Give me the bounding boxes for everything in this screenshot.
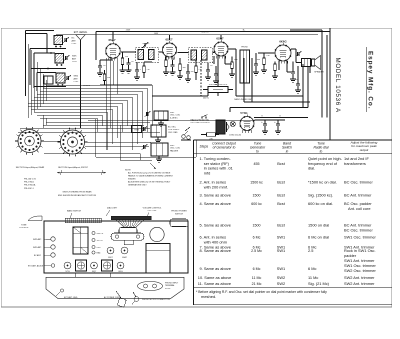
switch S1 wafer section B rear	[15, 127, 45, 169]
label band switch	[67, 210, 82, 218]
svg-text:SW2 Ant. trimmer: SW2 Ant. trimmer	[344, 275, 375, 280]
dial scale hatched bar	[65, 218, 101, 222]
wire grid caps and misc labels	[113, 30, 298, 137]
resistor R AVC 2	[195, 60, 202, 80]
svg-text:COIL: COIL	[74, 81, 80, 83]
coil L6 SW2 OSC with trimmer	[141, 143, 181, 162]
label pilot lamp list	[24, 178, 37, 190]
IF transformer T2 456kc	[178, 32, 215, 63]
coil L1 BC ANT with trimmer	[54, 36, 77, 48]
resistor network diode load box	[240, 47, 250, 84]
svg-text:465 KC: 465 KC	[203, 98, 210, 100]
svg-text:COIL: COIL	[72, 61, 78, 63]
svg-text:5Y3G: 5Y3G	[65, 271, 70, 273]
svg-text:ANT: ANT	[72, 57, 77, 60]
coil L2 SW1 ANT with trimmer	[55, 54, 78, 66]
capacitor C filter 2	[274, 120, 281, 134]
svg-text:6-18 MC: 6-18 MC	[170, 117, 178, 119]
tube socket 6SK7 top	[107, 247, 114, 259]
antenna EXT AERIAL	[74, 31, 91, 128]
svg-text:ANT: ANT	[74, 77, 79, 80]
plug AC power cord	[104, 291, 126, 307]
socket shielded box 1	[76, 260, 87, 271]
svg-text:SPEAKER: SPEAKER	[314, 71, 324, 74]
svg-text:2.5 Mc: 2.5 Mc	[251, 249, 262, 253]
speaker SP1	[312, 56, 325, 74]
svg-text:6K6G: 6K6G	[279, 40, 286, 44]
capacitor C diode filter	[185, 64, 194, 82]
svg-text:Bcst: Bcst	[277, 161, 285, 166]
svg-text:.05: .05	[131, 61, 134, 63]
svg-text:11 Mc: 11 Mc	[308, 275, 318, 280]
svg-text:.006: .006	[257, 59, 261, 61]
speaker side view on chassis	[111, 216, 151, 244]
svg-text:BC: BC	[72, 38, 75, 40]
svg-text:RADIO-PHONO SW.: RADIO-PHONO SW.	[191, 119, 210, 122]
svg-text:Sig. (1500 kc).: Sig. (1500 kc).	[308, 193, 333, 198]
svg-text:.1: .1	[140, 69, 142, 71]
wire heater rail	[88, 61, 255, 121]
svg-text:.5 M: .5 M	[266, 55, 270, 57]
svg-text:transformers: transformers	[344, 161, 366, 166]
trimmer BC ANT on chassis	[34, 253, 55, 257]
svg-text:8: 8	[261, 116, 262, 118]
svg-text:2ND I.F.: 2ND I.F.	[97, 233, 104, 235]
tuning gang condenser top view	[73, 227, 88, 254]
svg-text:300: 300	[183, 67, 186, 69]
resistor R osc grid	[103, 70, 111, 85]
schematic right boundary rule	[329, 28, 331, 140]
svg-text:PHONO INPUT: PHONO INPUT	[165, 282, 179, 284]
wire ground rail lower	[18, 128, 196, 160]
svg-text:NOTE:: NOTE:	[125, 170, 132, 172]
svg-text:Espey Mfg. Co.: Espey Mfg. Co.	[367, 51, 374, 109]
svg-text:SECTION &quot;B&quot; REAR: SECTION &quot;B&quot; REAR	[16, 166, 45, 169]
svg-text:VOLUME CONTROL: VOLUME CONTROL	[143, 207, 163, 209]
svg-text:AC POWER CORD: AC POWER CORD	[104, 296, 121, 299]
svg-text:GENERATORS ONLY: GENERATORS ONLY	[128, 184, 147, 187]
svg-text:5. Same as above: 5. Same as above	[200, 223, 231, 228]
svg-text:100: 100	[191, 71, 194, 73]
svg-text:PHONO POWER: PHONO POWER	[171, 211, 187, 213]
filter can circle	[150, 227, 164, 241]
wire oscillator section links	[85, 119, 156, 169]
svg-text:EXT. AERIAL: EXT. AERIAL	[74, 31, 88, 34]
svg-text:output: output	[360, 148, 369, 152]
socket labels bottom row	[65, 271, 123, 273]
wire plate supply verticals	[290, 30, 327, 118]
svg-text:270: 270	[277, 59, 280, 61]
resistor R cathode V1 and bypass	[120, 52, 132, 73]
capacitor C screen bypass V2	[134, 62, 141, 80]
svg-text:Bcst: Bcst	[277, 201, 285, 206]
svg-text:OSC. COIL: OSC. COIL	[170, 148, 181, 150]
tube socket V5 bottom row 1	[64, 262, 71, 269]
chassis front apron	[46, 273, 184, 299]
svg-text:mfd: mfd	[204, 170, 211, 175]
svg-text:250V: 250V	[126, 30, 131, 32]
trimmer SW2 ANT on chassis	[33, 237, 55, 241]
svg-text:600 kc on dial.: 600 kc on dial.	[308, 201, 333, 206]
svg-text:*1500 kc on dial.: *1500 kc on dial.	[308, 180, 337, 185]
svg-text:5Y3G: 5Y3G	[240, 111, 247, 115]
label switch viewed note	[58, 190, 97, 197]
alignment table text	[196, 141, 378, 300]
label MODEL 10536 A vertical	[334, 58, 341, 113]
svg-text:END SHOWN IN BROADCAST POSITIO: END SHOWN IN BROADCAST POSITION	[58, 194, 97, 197]
wire band switch bus mesh	[28, 44, 152, 150]
resistor R plate V2	[177, 58, 186, 79]
svg-text:BC Ant. trimmer: BC Ant. trimmer	[344, 193, 372, 198]
potentiometer volume control	[203, 84, 233, 96]
capacitor C tone on output	[295, 51, 302, 93]
svg-text:6 Mc: 6 Mc	[253, 267, 261, 271]
svg-text:6SQ7: 6SQ7	[92, 271, 96, 273]
tube socket 6SA7 top	[121, 247, 128, 259]
svg-text:SW1 ANT.: SW1 ANT.	[33, 246, 42, 249]
svg-text:SW2 Ant. trimmer: SW2 Ant. trimmer	[344, 281, 375, 286]
svg-text:SW2: SW2	[277, 275, 285, 280]
capacitor C grid V1	[97, 60, 106, 76]
svg-text:RADIO-PHONO SW.: RADIO-PHONO SW.	[234, 98, 252, 101]
svg-text:TERMINAL: TERMINAL	[165, 284, 175, 287]
svg-text:OSC. PAD: OSC. PAD	[168, 131, 178, 134]
resistor R V4 cathode	[272, 62, 278, 80]
wire antenna feed	[26, 31, 67, 97]
svg-text:Steps: Steps	[200, 145, 209, 149]
svg-text:SHIELD: SHIELD	[83, 85, 91, 87]
label NOTE block	[125, 170, 174, 187]
coil L5 BC OSC with padder	[141, 125, 179, 143]
grommet ext ant gnd	[56, 289, 78, 299]
svg-text:STRIP: STRIP	[165, 288, 171, 290]
tube V2 6SK7 IF amp	[162, 38, 176, 60]
capacitor C antenna series box	[44, 76, 53, 84]
svg-text:ON - OFF: ON - OFF	[148, 210, 158, 212]
svg-text:Ant. coil core: Ant. coil core	[348, 206, 371, 211]
wire V2 V3 pin drops	[166, 56, 232, 87]
svg-text:BC OSC.: BC OSC.	[168, 127, 177, 129]
svg-text:ALL POINTS (X) &amp; (Y) IN LI: ALL POINTS (X) &amp; (Y) IN LIMITED OUTS…	[128, 172, 171, 175]
svg-text:PRI-4 BC-1: PRI-4 BC-1	[24, 188, 34, 190]
knob tone control	[19, 216, 42, 229]
tube socket bottom row 2	[91, 262, 98, 269]
svg-text:with 200 mmf.: with 200 mmf.	[204, 184, 228, 189]
svg-text:25M: 25M	[107, 77, 111, 79]
svg-text:2 M: 2 M	[199, 69, 202, 71]
dimension line switch sections	[57, 170, 106, 175]
plug phono motor connection	[132, 292, 170, 305]
svg-text:OSC. COIL: OSC. COIL	[170, 115, 181, 117]
svg-text:SW2 ANT.: SW2 ANT.	[33, 238, 42, 241]
svg-text:of Generator to: of Generator to	[213, 146, 236, 150]
svg-text:1500: 1500	[253, 224, 261, 228]
svg-text:TONE: TONE	[21, 224, 27, 226]
svg-text:PAD.: PAD.	[97, 252, 102, 255]
svg-text:DIAL LIGHT: DIAL LIGHT	[107, 207, 118, 210]
capacitor C output tone	[290, 62, 296, 83]
lamp pilot light	[230, 121, 235, 126]
svg-text:SW1: SW1	[277, 266, 285, 271]
svg-text:PRI-1 AT 1.5V: PRI-1 AT 1.5V	[24, 178, 37, 181]
svg-text:11. Same as above: 11. Same as above	[198, 281, 231, 286]
svg-text:2.5: 2.5	[308, 248, 313, 253]
svg-text:6 Mc on dial: 6 Mc on dial	[308, 235, 329, 240]
IF transformer T1 456kc	[121, 42, 162, 62]
svg-text:EXT. ANT. ADJUST: EXT. ANT. ADJUST	[28, 264, 45, 267]
svg-text:PADDER: PADDER	[170, 149, 179, 152]
svg-text:Bcst: Bcst	[277, 193, 285, 198]
tube V5 5Y3G rectifier	[240, 111, 254, 133]
svg-text:21 Mc: 21 Mc	[252, 282, 262, 286]
svg-text:1ST I.F.: 1ST I.F.	[97, 240, 104, 242]
resistor R AVC filter	[143, 62, 150, 78]
svg-text:6K6G: 6K6G	[118, 271, 123, 273]
svg-text:10. Same as above: 10. Same as above	[198, 275, 232, 280]
svg-text:4. Same as above: 4. Same as above	[200, 201, 231, 206]
capacitor C AVC	[213, 66, 219, 84]
svg-text:8: 8	[279, 116, 280, 118]
tube socket bottom row 3	[117, 262, 124, 269]
svg-text:455: 455	[254, 162, 260, 166]
tube V1 6SA7 converter	[106, 38, 121, 61]
svg-text:6 Mc: 6 Mc	[253, 236, 261, 240]
coil L4 SW1 OSC with trimmer	[144, 111, 181, 126]
svg-text:COIL: COIL	[72, 43, 78, 45]
terminal strip phono input	[138, 281, 179, 290]
label volume control on-off	[143, 207, 163, 218]
svg-text:.05: .05	[103, 65, 106, 67]
svg-text:SECTION &quot;A&quot; FRONT: SECTION &quot;A&quot; FRONT	[58, 166, 89, 169]
svg-text:6SA7: 6SA7	[122, 256, 126, 259]
trimmer SW1 ANT on chassis	[33, 245, 55, 249]
svg-text:6 Mc: 6 Mc	[308, 266, 316, 271]
resistor R grid leak	[261, 53, 267, 73]
label dial light	[106, 207, 118, 216]
table frame rules	[194, 140, 393, 305]
label radio-phono sw upper	[234, 98, 252, 101]
wire shield partition dashed	[200, 60, 202, 96]
svg-text:BC Osc. trimmer: BC Osc. trimmer	[344, 227, 373, 232]
switch phono power	[170, 211, 188, 227]
power transformer T4	[216, 120, 229, 134]
switch S1 wafer section A front	[58, 128, 89, 169]
svg-text:8. Same as above: 8. Same as above	[200, 248, 231, 253]
svg-text:11 Mc: 11 Mc	[252, 276, 262, 280]
svg-text:1500: 1500	[253, 194, 261, 198]
svg-text:SW1: SW1	[277, 235, 285, 240]
svg-text:Bcst: Bcst	[277, 223, 285, 228]
svg-text:6SK7: 6SK7	[108, 257, 112, 259]
svg-text:3. Same as above: 3. Same as above	[200, 193, 231, 198]
svg-text:456 KC: 456 KC	[202, 32, 209, 34]
resistor R cathode V2	[163, 56, 176, 75]
svg-text:SW2 Osc. trimmer: SW2 Osc. trimmer	[344, 268, 376, 273]
svg-text:to: to	[320, 149, 323, 153]
svg-text:EXT. ANT. GND.: EXT. ANT. GND.	[64, 296, 78, 299]
svg-text:SW1 Osc. trimmer: SW1 Osc. trimmer	[344, 235, 376, 240]
svg-text:6SQ7: 6SQ7	[216, 37, 224, 41]
svg-text:PRI-2 SW-1: PRI-2 SW-1	[24, 182, 34, 184]
svg-text:BAND SWITCH: BAND SWITCH	[67, 210, 82, 213]
svg-text:50M: 50M	[234, 59, 238, 61]
svg-text:600 kc: 600 kc	[251, 202, 262, 206]
svg-text:1 M: 1 M	[147, 69, 150, 71]
wire B+ distribution	[230, 64, 308, 118]
svg-text:TRIM: TRIM	[134, 129, 139, 131]
svg-text:SW1: SW1	[277, 248, 285, 253]
wire B+ rail top	[56, 32, 330, 35]
svg-text:COND. 450-30: COND. 450-30	[229, 135, 241, 137]
svg-text:PRI-3 SW-1A: PRI-3 SW-1A	[24, 184, 36, 187]
capacitor C IF bypass	[205, 63, 211, 81]
resistor R screen	[229, 57, 235, 78]
switch radio-phono on tone control	[191, 115, 211, 125]
wire output stage drops	[236, 49, 310, 102]
socket shielded box 2	[102, 260, 113, 271]
svg-text:6SA7: 6SA7	[109, 38, 116, 42]
svg-text:Sig. (21 Mc): Sig. (21 Mc)	[308, 281, 330, 286]
svg-text:SWITCH VIEWED FROM REAR: SWITCH VIEWED FROM REAR	[63, 190, 92, 193]
svg-text:PHONO MOTOR CONNECTION: PHONO MOTOR CONNECTION	[142, 299, 170, 301]
svg-text:ON TONE CONTROL: ON TONE CONTROL	[191, 122, 211, 124]
svg-text:.1: .1	[169, 58, 171, 60]
grommet ext ant adjust	[28, 264, 55, 268]
svg-text:ADJUSTERS USED (X) OR SET HIGH: ADJUSTERS USED (X) OR SET HIGH ACTIVELY	[128, 181, 171, 184]
resistor R line dropping	[201, 133, 219, 141]
svg-text:OSC.: OSC.	[97, 247, 102, 249]
svg-text:100V: 100V	[154, 33, 159, 35]
plug AC line cord schematic	[181, 98, 210, 141]
svg-text:456 KC: 456 KC	[143, 43, 150, 45]
capacitor C coupling	[229, 49, 275, 75]
svg-text:.01: .01	[295, 79, 298, 81]
svg-text:STAGES: STAGES	[128, 178, 136, 181]
svg-text:.01: .01	[210, 65, 213, 67]
svg-text:1500 on dial: 1500 on dial	[308, 223, 329, 228]
svg-text:250: 250	[125, 56, 128, 58]
svg-text:to: to	[256, 149, 259, 153]
svg-text:dial.: dial.	[308, 166, 315, 171]
svg-text:SW2: SW2	[277, 281, 285, 286]
capacitor C filter 1	[255, 120, 286, 134]
svg-text:PHONO: PHONO	[241, 47, 248, 49]
svg-text:CONTROL: CONTROL	[19, 227, 30, 229]
label Espey Mfg Co vertical	[366, 47, 373, 112]
svg-text:BC ANT.: BC ANT.	[34, 254, 42, 257]
svg-text:Bcst: Bcst	[277, 180, 285, 185]
trimmer box oscillator	[132, 126, 142, 132]
IF trimmer holes labels	[92, 231, 104, 254]
output transformer T3	[291, 49, 311, 67]
svg-text:MODEL 10536 A: MODEL 10536 A	[334, 58, 341, 113]
power transformer block top view	[146, 244, 170, 274]
svg-text:1500 kc: 1500 kc	[250, 181, 263, 185]
tube V3 6SQ7 det-AVC	[214, 37, 228, 59]
tube V4 6K6G output	[275, 40, 291, 64]
coil L3 SW2 ANT with trimmer	[56, 73, 79, 86]
svg-text:BC Osc. trimmer: BC Osc. trimmer	[344, 180, 373, 185]
svg-text:COIL 600KC: COIL 600KC	[168, 129, 180, 131]
chassis outline top view	[44, 221, 188, 273]
svg-text:VOLUME CONTROL: VOLUME CONTROL	[209, 84, 229, 86]
svg-text:PANELS TO CASE NUMBERS (POWER): PANELS TO CASE NUMBERS (POWER) CURRENT	[128, 175, 174, 178]
svg-text:in: in	[286, 149, 289, 153]
svg-text:ANT: ANT	[72, 39, 77, 42]
svg-text:SWITCH: SWITCH	[175, 213, 183, 215]
svg-text:meshed.: meshed.	[201, 294, 216, 299]
wire AVC bus extension	[96, 32, 208, 97]
svg-text:9. Same as above: 9. Same as above	[200, 266, 231, 271]
